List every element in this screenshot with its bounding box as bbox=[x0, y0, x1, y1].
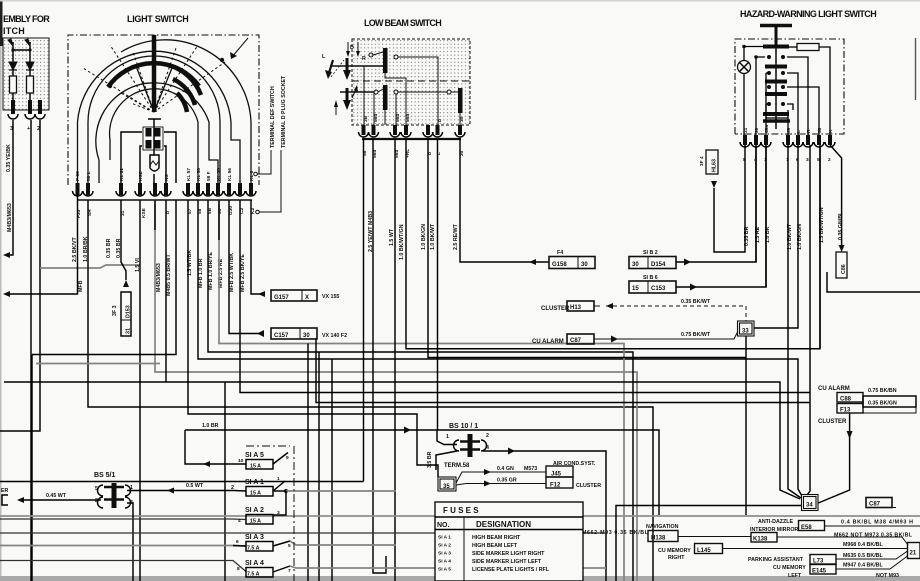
svg-text:2.5 RE/WT: 2.5 RE/WT bbox=[453, 223, 459, 250]
svg-text:SI A 3: SI A 3 bbox=[438, 551, 451, 557]
svg-text:HAZARD-WARNING LIGHT SWITCH: HAZARD-WARNING LIGHT SWITCH bbox=[740, 9, 877, 19]
diode symbols bbox=[8, 39, 34, 70]
svg-text:6: 6 bbox=[236, 539, 239, 545]
labels below bus bbox=[76, 206, 256, 218]
box F13 bbox=[837, 404, 863, 414]
svg-text:CLUSTER: CLUSTER bbox=[576, 483, 601, 489]
svg-text:31: 31 bbox=[126, 328, 132, 334]
svg-text:SI A 4: SI A 4 bbox=[245, 560, 264, 567]
fuse area dash-dot boundary bbox=[293, 446, 295, 581]
low beam sockets bbox=[359, 132, 466, 137]
wire into box upper bbox=[330, 65, 385, 67]
wire gauge labels light switch bbox=[72, 236, 246, 296]
resistor R1 bbox=[10, 76, 17, 93]
svg-text:2: 2 bbox=[95, 498, 98, 504]
svg-text:F12: F12 bbox=[550, 483, 561, 489]
svg-text:3B: 3B bbox=[363, 115, 369, 122]
box 33 bbox=[738, 321, 755, 336]
svg-text:NS: NS bbox=[164, 174, 170, 181]
wire NS down to gray 372 bbox=[155, 200, 637, 581]
svg-text:0.4 BK/BL M38 4/M93 H: 0.4 BK/BL M38 4/M93 H bbox=[841, 520, 913, 526]
svg-text:HIGH BEAM RIGHT: HIGH BEAM RIGHT bbox=[472, 535, 521, 541]
svg-text:MFB 1.0 BR: MFB 1.0 BR bbox=[198, 258, 204, 288]
solid radial pointers bbox=[136, 66, 172, 112]
svg-text:MFB 2.5 WT/BK: MFB 2.5 WT/BK bbox=[229, 253, 235, 292]
svg-text:CU MEMORY: CU MEMORY bbox=[773, 565, 806, 571]
switch detent arcs thick bbox=[108, 63, 201, 112]
fuse SI A1 bbox=[245, 476, 396, 515]
svg-text:56b: 56b bbox=[373, 114, 379, 122]
box F12 bbox=[546, 477, 573, 488]
hazard resistor bbox=[797, 44, 819, 51]
box J45 bbox=[546, 466, 573, 477]
light switch terminal labels above pins bbox=[75, 168, 255, 181]
low beam pins bbox=[362, 125, 463, 135]
hazard lower thick bar bbox=[763, 119, 790, 123]
wire KL56 down to C157 box bbox=[229, 200, 264, 334]
svg-text:LIGHT SWITCH: LIGHT SWITCH bbox=[127, 14, 189, 24]
dashed wire to 33 bbox=[606, 306, 746, 322]
wire BS5/1 pin4 right down bbox=[127, 503, 133, 581]
radial dashed lines bbox=[83, 45, 225, 112]
svg-text:58 L: 58 L bbox=[86, 171, 92, 181]
gray branch wire bbox=[40, 265, 140, 268]
svg-text:G157: G157 bbox=[274, 295, 289, 301]
stalk arrow lower bbox=[346, 88, 349, 102]
stub from C157 to 402 line bbox=[316, 338, 810, 403]
dashed divider bbox=[352, 80, 470, 82]
arrow down to H-box wire bbox=[711, 181, 717, 188]
svg-text:NAVIGATION: NAVIGATION bbox=[646, 524, 679, 530]
svg-text:F U S E S: F U S E S bbox=[443, 506, 479, 515]
svg-text:30: 30 bbox=[581, 262, 588, 268]
lower contact circles bbox=[374, 90, 378, 94]
K138 bbox=[751, 533, 777, 543]
svg-text:C157: C157 bbox=[274, 333, 289, 339]
svg-text:30: 30 bbox=[754, 127, 760, 133]
hazard lamp bbox=[738, 61, 751, 74]
svg-text:33: 33 bbox=[742, 329, 749, 335]
svg-text:15 A: 15 A bbox=[250, 519, 261, 525]
upper contact internal wiring bbox=[385, 73, 406, 92]
right bottom section box bbox=[616, 506, 801, 581]
svg-text:1.5 WT: 1.5 WT bbox=[389, 228, 395, 246]
box 21 bbox=[908, 543, 920, 559]
svg-text:M662-M93 0.35 BK/BL: M662-M93 0.35 BK/BL bbox=[582, 530, 649, 536]
svg-text:TERMINAL D PLUG SOCKET: TERMINAL D PLUG SOCKET bbox=[281, 75, 287, 148]
hazard pins bbox=[743, 135, 832, 145]
assembly box with stipple fill bbox=[3, 38, 49, 110]
svg-text:SI A 5: SI A 5 bbox=[438, 567, 451, 573]
svg-text:SI A 2: SI A 2 bbox=[245, 507, 264, 514]
svg-text:9: 9 bbox=[286, 455, 289, 461]
svg-text:SI A 3: SI A 3 bbox=[245, 534, 264, 541]
svg-text:VX 140 F2: VX 140 F2 bbox=[322, 333, 347, 339]
svg-text:HIGH BEAM LEFT: HIGH BEAM LEFT bbox=[472, 543, 518, 549]
svg-text:7.5 A: 7.5 A bbox=[247, 546, 260, 552]
svg-text:3F 4: 3F 4 bbox=[699, 156, 705, 166]
svg-text:KL 30: KL 30 bbox=[216, 168, 222, 181]
box C88 bbox=[837, 393, 863, 403]
fuse SI A3 bbox=[233, 534, 396, 552]
svg-text:5: 5 bbox=[95, 486, 98, 492]
svg-text:2: 2 bbox=[486, 433, 489, 439]
svg-text:56b: 56b bbox=[395, 114, 401, 122]
svg-text:SI A 1: SI A 1 bbox=[438, 535, 451, 541]
box around 0.35 BK/GN bbox=[863, 396, 916, 407]
full width line 481 bbox=[0, 481, 364, 483]
svg-text:10: 10 bbox=[238, 458, 244, 464]
svg-text:CU MEMORY: CU MEMORY bbox=[658, 548, 691, 554]
box 34 bbox=[802, 495, 819, 511]
light switch sockets bbox=[73, 191, 257, 196]
svg-text:NOT M93: NOT M93 bbox=[876, 573, 899, 579]
svg-text:0.75 BK/BN: 0.75 BK/BN bbox=[868, 388, 897, 394]
svg-text:0.4 GN: 0.4 GN bbox=[497, 466, 514, 472]
svg-text:4: 4 bbox=[238, 518, 241, 524]
svg-text:58: 58 bbox=[817, 127, 823, 133]
svg-text:KSE: KSE bbox=[141, 207, 147, 218]
gray full width line 516 bbox=[0, 515, 920, 517]
box C86 rotated bbox=[836, 252, 847, 278]
long line 382 full width to 34 box bbox=[4, 382, 800, 499]
svg-text:LOW BEAM SWITCH: LOW BEAM SWITCH bbox=[364, 18, 442, 28]
svg-text:LEFT: LEFT bbox=[788, 573, 802, 579]
svg-text:KL 56: KL 56 bbox=[227, 168, 233, 181]
svg-text:SIDE MARKER LIGHT RIGHT: SIDE MARKER LIGHT RIGHT bbox=[472, 551, 545, 557]
wires from contact block to pins bbox=[121, 132, 176, 183]
svg-text:L73: L73 bbox=[813, 559, 824, 565]
svg-text:MFB 1.0 BR/YE: MFB 1.0 BR/YE bbox=[208, 252, 214, 290]
light switch bus line bbox=[77, 199, 252, 201]
svg-text:L: L bbox=[796, 130, 802, 133]
svg-text:30: 30 bbox=[217, 208, 223, 214]
svg-text:TERM.58: TERM.58 bbox=[444, 463, 470, 469]
hazard internal wires bbox=[744, 47, 830, 136]
svg-text:8: 8 bbox=[237, 566, 240, 572]
svg-text:34: 34 bbox=[806, 503, 813, 509]
svg-text:CU ALARM: CU ALARM bbox=[818, 386, 850, 392]
svg-text:MFB 2.5 BK/YE: MFB 2.5 BK/YE bbox=[240, 254, 246, 292]
wire F13 down arrow to 34 bbox=[817, 413, 850, 504]
svg-text:K138: K138 bbox=[753, 537, 768, 543]
svg-text:30: 30 bbox=[303, 333, 310, 339]
low beam bus bbox=[362, 138, 461, 140]
gray short line 363 bbox=[36, 363, 160, 365]
box C87 bbox=[567, 334, 594, 344]
svg-text:D154: D154 bbox=[651, 262, 666, 268]
svg-text:L145: L145 bbox=[697, 548, 711, 554]
svg-text:M635 0.5 BK/BL: M635 0.5 BK/BL bbox=[843, 553, 884, 559]
svg-text:C87: C87 bbox=[570, 338, 582, 344]
hazard wires down bbox=[714, 145, 842, 498]
wire SR down to 407 line bbox=[88, 200, 653, 581]
svg-text:CLUSTER: CLUSTER bbox=[541, 306, 570, 312]
svg-text:M947 0.4 BK/BL: M947 0.4 BK/BL bbox=[843, 563, 884, 569]
svg-text:SI B 6: SI B 6 bbox=[643, 275, 658, 281]
svg-text:SI B 2: SI B 2 bbox=[643, 250, 658, 256]
light switch dash-dot border bbox=[68, 35, 259, 185]
svg-text:K: K bbox=[828, 129, 834, 133]
svg-text:0.35 BK/GN: 0.35 BK/GN bbox=[868, 401, 897, 407]
contact block bbox=[143, 127, 163, 150]
hazard pin numbers bbox=[743, 157, 831, 163]
wire 31 down to D153 bbox=[121, 200, 126, 280]
svg-text:b: b bbox=[437, 119, 443, 122]
svg-text:ER: ER bbox=[1, 488, 9, 494]
svg-text:M662 NOT M973 0.35 BK/BL: M662 NOT M973 0.35 BK/BL bbox=[834, 533, 913, 539]
svg-text:KL 58: KL 58 bbox=[196, 168, 202, 181]
svg-text:F4: F4 bbox=[557, 250, 563, 256]
box G158 30 bbox=[549, 250, 595, 269]
rotary switch shaft bbox=[152, 35, 157, 112]
fuse SI A2 bbox=[238, 507, 280, 525]
svg-text:LICENSE PLATE LIGHTS / RFL: LICENSE PLATE LIGHTS / RFL bbox=[472, 567, 550, 573]
hazard switch dash-dot box bbox=[735, 39, 844, 134]
svg-text:7: 7 bbox=[288, 568, 291, 574]
svg-text:C88: C88 bbox=[840, 397, 852, 403]
resistor R2 bbox=[27, 76, 34, 93]
svg-text:C87: C87 bbox=[869, 502, 881, 508]
wire KL30 down to 343.5 gray bbox=[219, 200, 624, 581]
svg-text:C86: C86 bbox=[841, 264, 847, 274]
svg-text:30: 30 bbox=[459, 116, 465, 122]
wire C2 down to 392 line bbox=[240, 200, 810, 393]
svg-text:SI A 5: SI A 5 bbox=[245, 452, 264, 459]
hazard crossbars bbox=[763, 45, 789, 117]
lower contact bar bbox=[383, 85, 388, 110]
small box 31 rotated top bbox=[699, 150, 718, 174]
box H13 bbox=[567, 301, 594, 311]
svg-text:3: 3 bbox=[806, 157, 809, 163]
svg-text:X: X bbox=[305, 295, 309, 301]
hazard contact dots bbox=[742, 45, 785, 106]
svg-text:0.5 WT: 0.5 WT bbox=[186, 483, 204, 489]
svg-text:KL 57: KL 57 bbox=[186, 168, 192, 181]
left vertical x=32 bbox=[31, 355, 33, 581]
svg-text:EMBLY FOR: EMBLY FOR bbox=[3, 14, 50, 24]
svg-text:35: 35 bbox=[443, 484, 450, 490]
svg-text:M4B3/M653: M4B3/M653 bbox=[156, 263, 162, 292]
svg-text:15 A: 15 A bbox=[250, 491, 261, 497]
svg-text:SI A 1: SI A 1 bbox=[245, 479, 264, 486]
svg-text:1.0 BK/WT/GN: 1.0 BK/WT/GN bbox=[399, 224, 405, 260]
upper contact circles bbox=[369, 53, 373, 57]
assembly connector pins bbox=[11, 100, 42, 114]
svg-text:+: + bbox=[27, 126, 30, 132]
svg-text:56a: 56a bbox=[405, 114, 411, 122]
svg-text:R: R bbox=[806, 129, 812, 133]
svg-text:49: 49 bbox=[786, 127, 792, 133]
svg-text:7.5 A: 7.5 A bbox=[247, 572, 260, 578]
svg-text:0.35 BK/WT: 0.35 BK/WT bbox=[681, 299, 711, 305]
right thick contact bar bbox=[458, 88, 463, 113]
wire b down to 382 line bbox=[165, 200, 167, 382]
horseshoe wire loops connecting pins bbox=[78, 40, 252, 183]
svg-text:SIDE MARKER LIGHT LEFT: SIDE MARKER LIGHT LEFT bbox=[472, 559, 542, 565]
svg-text:G158: G158 bbox=[552, 262, 567, 268]
svg-text:15: 15 bbox=[632, 286, 639, 292]
gray lines bottom left bbox=[0, 518, 246, 521]
svg-text:RIGHT: RIGHT bbox=[668, 555, 685, 561]
svg-text:1.0 BR: 1.0 BR bbox=[202, 423, 219, 429]
svg-text:P 30: P 30 bbox=[75, 171, 81, 181]
wire pin + down full bbox=[30, 120, 32, 581]
wire from pin 3 down to left arrow bbox=[6, 120, 13, 255]
low beam switch stippled box bbox=[352, 39, 470, 125]
diode D1 branch bbox=[13, 42, 30, 108]
low beam pin labels inside bbox=[363, 114, 465, 122]
wire 58F down to 352 bbox=[208, 200, 633, 581]
panel lamp bulb bbox=[150, 155, 159, 171]
hazard wire gauge labels bbox=[744, 207, 844, 250]
hazard sockets bbox=[740, 142, 835, 147]
svg-text:ANTI-DAZZLE: ANTI-DAZZLE bbox=[758, 519, 793, 525]
scan edge bottom bbox=[0, 576, 920, 581]
stalk arrows upper bbox=[322, 42, 366, 79]
T verticals to bottom bbox=[224, 382, 226, 581]
low beam wires down bbox=[364, 139, 821, 581]
svg-text:2: 2 bbox=[828, 157, 831, 163]
hazard shaft bbox=[775, 46, 777, 129]
switch contact T bbox=[148, 118, 161, 120]
svg-text:MFB: MFB bbox=[78, 280, 84, 292]
wire BS5/1 pin2 left with arrow to box bbox=[20, 499, 101, 501]
C86 arrow bbox=[839, 245, 845, 252]
wire BS5/1 pin1 to SI A1 bbox=[127, 490, 246, 493]
svg-text:M573: M573 bbox=[524, 466, 537, 472]
svg-text:CU ALARM: CU ALARM bbox=[532, 339, 564, 345]
svg-text:0.35 BR: 0.35 BR bbox=[106, 238, 112, 258]
svg-text:CLUSTER: CLUSTER bbox=[818, 419, 847, 425]
svg-text:SI A 4: SI A 4 bbox=[438, 559, 451, 565]
svg-text:0.45 WT: 0.45 WT bbox=[46, 493, 67, 499]
fuse SI A4 bbox=[237, 560, 606, 578]
svg-text:49a: 49a bbox=[764, 125, 770, 133]
low beam wire gauge labels bbox=[368, 211, 459, 260]
wire KL57 down to 414 line to 35 box bbox=[188, 200, 438, 477]
wire M4B3 down to 354 over to left vertical bbox=[32, 200, 176, 355]
svg-text:0.35 GR: 0.35 GR bbox=[497, 478, 517, 484]
fuse SI A5 bbox=[238, 452, 289, 470]
svg-text:30: 30 bbox=[632, 262, 639, 268]
svg-text:KSE: KSE bbox=[138, 170, 144, 181]
svg-text:1: 1 bbox=[446, 434, 449, 440]
wire C87 to 33 bbox=[594, 331, 738, 339]
svg-text:PARKING ASSISTANT: PARKING ASSISTANT bbox=[748, 557, 804, 563]
svg-text:TERMINAL DEF SWITCH: TERMINAL DEF SWITCH bbox=[270, 86, 276, 148]
svg-text:M4B3/M653: M4B3/M653 bbox=[7, 203, 13, 232]
svg-text:3F 3: 3F 3 bbox=[112, 305, 118, 316]
scan edge top bbox=[0, 0, 920, 2]
scan edge left bbox=[0, 0, 3, 46]
svg-text:BS 5/1: BS 5/1 bbox=[94, 472, 116, 479]
svg-text:3: 3 bbox=[277, 510, 280, 516]
light switch pin row: pins bbox=[76, 183, 254, 195]
hazard pin labels bbox=[743, 125, 834, 133]
wire KL58 down to 359 to hazard area bbox=[198, 200, 802, 496]
wires 35 to J45 F12 bbox=[456, 472, 546, 483]
svg-text:4: 4 bbox=[486, 445, 489, 451]
wire KL6 down to G157 box bbox=[251, 200, 265, 294]
svg-text:2: 2 bbox=[231, 485, 234, 491]
FUSES table bbox=[435, 502, 583, 581]
svg-text:SI A 2: SI A 2 bbox=[438, 543, 451, 549]
svg-text:E145: E145 bbox=[812, 569, 827, 575]
svg-text:M968 0.4 BK/BL: M968 0.4 BK/BL bbox=[843, 542, 884, 548]
low beam labels below bus bbox=[362, 149, 465, 158]
svg-text:DESIGNATION: DESIGNATION bbox=[476, 520, 531, 529]
svg-text:ITCH: ITCH bbox=[3, 26, 25, 36]
box C87 lower bbox=[866, 498, 892, 508]
svg-text:C153: C153 bbox=[651, 286, 666, 292]
svg-text:M4B5 0.5 BR/WT: M4B5 0.5 BR/WT bbox=[166, 253, 172, 296]
svg-text:KL 31: KL 31 bbox=[119, 168, 125, 181]
box G157 X bbox=[258, 290, 339, 301]
svg-text:H13: H13 bbox=[570, 305, 582, 311]
svg-text:58 F: 58 F bbox=[206, 171, 212, 181]
svg-text:D153: D153 bbox=[126, 305, 132, 318]
wire KSE down full bbox=[139, 200, 141, 581]
svg-text:3.5 BR: 3.5 BR bbox=[427, 451, 433, 468]
box D154 bbox=[629, 147, 756, 269]
svg-text:1.0 BK/GN: 1.0 BK/GN bbox=[421, 224, 427, 250]
svg-text:NO.: NO. bbox=[437, 522, 450, 529]
svg-text:F13: F13 bbox=[840, 408, 851, 414]
svg-text:D: D bbox=[350, 45, 354, 51]
wires to terminal labels bbox=[257, 150, 281, 212]
wire into box lower bbox=[340, 91, 374, 93]
wires down inside box bbox=[364, 66, 460, 125]
svg-text:31: 31 bbox=[743, 127, 749, 133]
svg-text:HL63: HL63 bbox=[712, 159, 718, 172]
upper contact bar bbox=[383, 48, 388, 73]
wire F30 down to left arrow bbox=[6, 195, 78, 294]
svg-text:BS 10 / 1: BS 10 / 1 bbox=[449, 423, 478, 430]
junction dots bbox=[11, 48, 14, 51]
box 35 bbox=[438, 477, 456, 491]
svg-text:R: R bbox=[362, 56, 366, 62]
svg-text:0.35 YE/BK: 0.35 YE/BK bbox=[6, 144, 12, 172]
svg-text:15 A: 15 A bbox=[250, 464, 261, 470]
scan artifact right edge bbox=[915, 38, 917, 100]
wire 33 down bbox=[745, 336, 747, 515]
svg-text:VX 155: VX 155 bbox=[322, 294, 339, 300]
thick arrow upper bbox=[346, 58, 349, 72]
wire pin 2 down bbox=[0, 120, 40, 431]
box C157 30 bbox=[257, 328, 347, 339]
svg-text:0.75 BK/WT: 0.75 BK/WT bbox=[681, 332, 711, 338]
svg-text:21: 21 bbox=[910, 551, 917, 557]
right edge wire 292 bbox=[827, 272, 920, 292]
hazard button T bar bbox=[760, 24, 792, 28]
svg-text:1.0 BK/WT: 1.0 BK/WT bbox=[430, 223, 436, 250]
box C153 bbox=[629, 147, 766, 293]
arrow to arcs right bbox=[232, 38, 248, 57]
svg-text:E58: E58 bbox=[801, 525, 812, 531]
svg-text:H138: H138 bbox=[651, 536, 666, 542]
svg-text:5: 5 bbox=[288, 543, 291, 549]
arrow into G158 bbox=[529, 259, 536, 265]
connector sockets bbox=[8, 114, 45, 119]
svg-text:1: 1 bbox=[277, 476, 280, 482]
connector box D153 bbox=[112, 292, 132, 336]
